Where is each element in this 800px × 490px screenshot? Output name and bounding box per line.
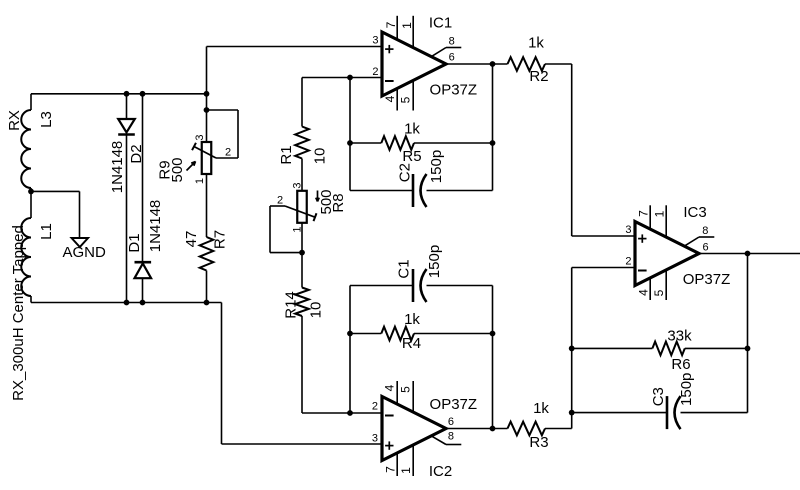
- svg-text:3: 3: [372, 433, 378, 445]
- svg-text:R7: R7: [211, 230, 228, 249]
- svg-text:R4: R4: [402, 335, 421, 352]
- svg-text:2: 2: [277, 195, 283, 207]
- svg-text:L3: L3: [38, 111, 55, 128]
- svg-text:3: 3: [194, 135, 206, 141]
- svg-text:5: 5: [652, 289, 666, 296]
- svg-text:D2: D2: [128, 144, 145, 163]
- svg-text:R1: R1: [278, 145, 295, 164]
- svg-text:3: 3: [291, 182, 303, 188]
- svg-text:8: 8: [448, 430, 454, 442]
- svg-text:R14: R14: [282, 291, 299, 319]
- svg-text:6: 6: [448, 416, 454, 428]
- svg-text:4: 4: [636, 289, 650, 296]
- svg-text:10: 10: [311, 148, 328, 165]
- svg-text:150p: 150p: [428, 150, 445, 183]
- svg-text:3: 3: [625, 224, 631, 236]
- svg-text:R6: R6: [671, 356, 690, 373]
- svg-text:R2: R2: [529, 68, 548, 85]
- svg-text:5: 5: [398, 96, 412, 103]
- svg-text:IC1: IC1: [429, 15, 452, 32]
- svg-text:7: 7: [384, 21, 398, 28]
- svg-text:OP37Z: OP37Z: [430, 396, 478, 413]
- svg-text:D1: D1: [126, 233, 143, 252]
- svg-text:1: 1: [652, 210, 666, 217]
- svg-text:5: 5: [398, 386, 412, 393]
- svg-text:6: 6: [702, 241, 708, 253]
- svg-text:OP37Z: OP37Z: [683, 271, 731, 288]
- svg-text:10: 10: [307, 302, 324, 319]
- svg-text:1: 1: [291, 227, 303, 233]
- svg-text:150p: 150p: [678, 373, 695, 406]
- svg-text:1k: 1k: [533, 400, 549, 417]
- svg-text:C2: C2: [396, 163, 413, 182]
- svg-text:4: 4: [382, 384, 396, 391]
- svg-text:150p: 150p: [426, 245, 443, 278]
- svg-text:1k: 1k: [528, 35, 544, 52]
- svg-text:1N4148: 1N4148: [147, 200, 164, 253]
- svg-text:1k: 1k: [404, 311, 420, 328]
- svg-text:IC3: IC3: [683, 204, 706, 221]
- svg-text:R8: R8: [330, 193, 347, 212]
- svg-text:33k: 33k: [667, 327, 692, 344]
- svg-text:AGND: AGND: [63, 244, 107, 261]
- svg-text:2: 2: [372, 66, 378, 78]
- svg-text:8: 8: [449, 36, 455, 48]
- svg-text:2: 2: [625, 256, 631, 268]
- svg-text:OP37Z: OP37Z: [430, 82, 478, 99]
- svg-text:L1: L1: [38, 223, 55, 240]
- svg-text:4: 4: [383, 95, 397, 102]
- svg-text:1N4148: 1N4148: [109, 141, 126, 194]
- svg-text:2: 2: [372, 400, 378, 412]
- svg-text:8: 8: [702, 225, 708, 237]
- svg-text:3: 3: [372, 35, 378, 47]
- svg-text:C1: C1: [395, 259, 412, 278]
- svg-text:500: 500: [169, 157, 186, 182]
- svg-text:R3: R3: [529, 434, 548, 451]
- svg-text:R5: R5: [402, 148, 421, 165]
- svg-text:1: 1: [194, 178, 206, 184]
- svg-text:7: 7: [383, 466, 397, 473]
- svg-text:47: 47: [183, 231, 200, 248]
- svg-text:RX: RX: [6, 110, 23, 131]
- svg-text:1: 1: [399, 467, 413, 474]
- svg-text:RX_300uH Center Tapped: RX_300uH Center Tapped: [10, 225, 27, 401]
- svg-text:1k: 1k: [404, 121, 420, 138]
- svg-text:1: 1: [400, 22, 414, 29]
- svg-text:6: 6: [449, 52, 455, 64]
- svg-text:IC2: IC2: [429, 463, 452, 480]
- svg-text:C3: C3: [650, 387, 667, 406]
- svg-text:7: 7: [636, 210, 650, 217]
- svg-text:2: 2: [225, 147, 231, 159]
